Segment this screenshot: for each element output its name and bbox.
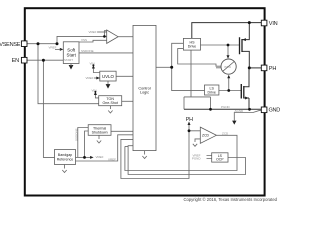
svg-text:Bandgap: Bandgap [58, 153, 72, 157]
svg-text:PGND: PGND [192, 157, 202, 161]
svg-text:START: START [64, 58, 73, 62]
svg-text:VREF: VREF [88, 30, 96, 34]
svg-text:EN: EN [12, 58, 20, 64]
svg-text:One-Shot: One-Shot [103, 101, 118, 105]
svg-text:SSDONE: SSDONE [81, 49, 94, 53]
svg-text:ISEN: ISEN [224, 65, 231, 69]
svg-text:VIN: VIN [90, 62, 95, 66]
svg-text:AGND: AGND [235, 109, 245, 113]
svg-text:VIN: VIN [269, 21, 278, 27]
svg-text:OCP: OCP [216, 158, 224, 162]
svg-text:UVLO: UVLO [102, 74, 115, 79]
svg-text:PH: PH [269, 66, 277, 72]
svg-text:VIN: VIN [92, 89, 97, 93]
svg-text:VREF: VREF [96, 155, 104, 159]
svg-text:ZCD: ZCD [202, 134, 210, 138]
svg-text:PGND: PGND [221, 105, 231, 109]
svg-text:Drive: Drive [188, 45, 196, 49]
svg-text:VREF: VREF [86, 76, 94, 80]
svg-text:Copyright © 2016, Texas Instru: Copyright © 2016, Texas Instruments Inco… [183, 197, 277, 202]
svg-text:SSDONE: SSDONE [75, 128, 79, 141]
svg-text:GND: GND [269, 108, 281, 114]
svg-text:Reference: Reference [57, 157, 74, 161]
svg-text:VSENSE: VSENSE [0, 42, 21, 48]
svg-text:VSS: VSS [81, 38, 87, 42]
svg-text:VREF: VREF [108, 157, 116, 161]
svg-text:Drive: Drive [208, 91, 216, 95]
svg-text:VREF: VREF [49, 46, 57, 50]
svg-text:ZCD: ZCD [222, 131, 229, 135]
svg-text:Logic: Logic [140, 91, 149, 95]
svg-text:Shutdown: Shutdown [92, 131, 108, 135]
svg-text:Start: Start [67, 52, 77, 57]
svg-text:PH: PH [186, 117, 193, 123]
